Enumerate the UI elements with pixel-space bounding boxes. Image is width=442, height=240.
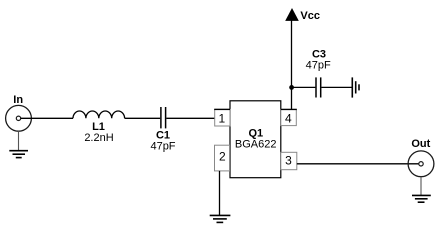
ground (C3, rotated)	[352, 77, 359, 97]
svg-text:2.2nH: 2.2nH	[84, 132, 113, 144]
wire In connector to ground	[18, 131, 20, 150]
svg-text:BGA622: BGA622	[235, 139, 277, 151]
junction dot	[289, 85, 294, 90]
pin 4 box	[281, 109, 297, 125]
wire pin 2 to ground	[219, 171, 221, 215]
pin 1 box	[214, 109, 230, 126]
svg-text:1: 1	[218, 111, 225, 125]
ground (In)	[9, 151, 28, 158]
wire pin 3 to Out	[297, 163, 419, 165]
svg-text:Q1: Q1	[248, 127, 263, 139]
ground (Q1 pin 2)	[210, 215, 231, 222]
Vcc symbol	[285, 8, 299, 21]
svg-text:2: 2	[219, 149, 226, 163]
wire Vcc to pin 4	[291, 20, 293, 109]
wire In to L1	[21, 117, 73, 119]
wire Out connector to ground	[420, 177, 422, 195]
inductor L1	[73, 111, 125, 118]
svg-text:In: In	[13, 94, 23, 106]
ground (Out)	[412, 195, 431, 202]
svg-text:Vcc: Vcc	[300, 10, 320, 22]
IC Q1 body	[230, 101, 281, 178]
wire C3 to ground	[321, 86, 352, 88]
connector In	[6, 105, 32, 131]
capacitor C1	[161, 107, 166, 128]
wire C1 to pin 1	[166, 117, 214, 119]
pin 3 box	[281, 152, 297, 169]
connector Out	[408, 151, 434, 177]
svg-text:47pF: 47pF	[306, 59, 331, 71]
capacitor C3	[316, 77, 321, 97]
pin 2 box	[215, 145, 230, 171]
svg-text:47pF: 47pF	[150, 141, 175, 153]
svg-text:4: 4	[285, 112, 292, 126]
wire L1 to C1	[125, 117, 161, 119]
svg-text:3: 3	[285, 154, 292, 168]
svg-text:Out: Out	[411, 138, 430, 150]
wire junction to C3	[292, 86, 316, 88]
